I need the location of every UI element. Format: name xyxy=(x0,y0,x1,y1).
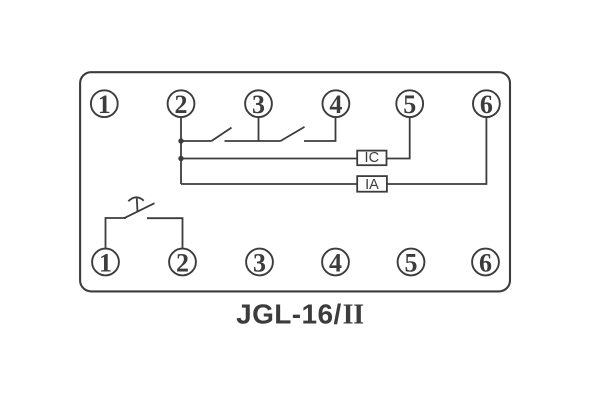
terminal 4 (top row) xyxy=(323,90,350,119)
wire: bottom terminal 1 up and right to test button xyxy=(106,218,127,249)
terminal 1 (top row) xyxy=(91,90,118,119)
relay element IC xyxy=(357,150,386,166)
terminal 6 (top row) xyxy=(473,90,500,119)
test button blade (contact between bottom terminals 1 and 2) xyxy=(124,203,155,218)
wire: test button to bottom terminal 2 xyxy=(147,218,183,248)
svg-text:3: 3 xyxy=(253,249,266,278)
relay element IA xyxy=(357,176,387,193)
terminal 4 (bottom row) xyxy=(322,249,349,278)
svg-text:2: 2 xyxy=(175,90,188,119)
relay case outline xyxy=(80,72,510,291)
svg-text:1: 1 xyxy=(98,90,111,119)
svg-text:5: 5 xyxy=(403,90,416,119)
contact blade (NO contact between terminals 3 and 4) xyxy=(281,127,305,141)
svg-text:JGL-16/II: JGL-16/II xyxy=(236,299,364,331)
svg-text:5: 5 xyxy=(405,249,418,278)
terminal 2 (bottom row) xyxy=(169,249,196,278)
terminal 5 (bottom row) xyxy=(398,249,425,278)
terminal 5 (top row) xyxy=(396,90,423,119)
wire: terminal 3 vertical drop xyxy=(258,117,260,141)
svg-text:IA: IA xyxy=(365,177,379,193)
wire: IC box to terminal 5 xyxy=(387,117,410,158)
contact blade (NO contact between terminals 2 and 3) xyxy=(212,128,232,141)
terminal 6 (bottom row) xyxy=(472,249,499,278)
svg-text:3: 3 xyxy=(252,90,265,119)
svg-text:6: 6 xyxy=(479,249,492,278)
terminal 2 (top row) xyxy=(168,90,195,119)
wire: contact row, first contact to terminal 3 drop and on to second contact xyxy=(225,140,281,142)
svg-text:2: 2 xyxy=(176,249,189,278)
wire: contact row, terminal 2 to first contact xyxy=(181,140,212,142)
junction dot at contact row xyxy=(178,138,183,143)
svg-text:4: 4 xyxy=(329,249,342,278)
wire: IC row from terminal 2 drop to IC box xyxy=(181,158,357,160)
wire: terminal 2 vertical drop to IA row xyxy=(180,117,182,184)
svg-text:1: 1 xyxy=(99,249,112,278)
wire: IA row from terminal 2 drop to IA box xyxy=(181,183,357,185)
label JGL-16/II (model designation) xyxy=(236,299,364,331)
svg-text:6: 6 xyxy=(480,90,493,119)
svg-text:4: 4 xyxy=(329,90,342,119)
junction dot at IC row xyxy=(178,156,183,161)
terminal 3 (top row) xyxy=(245,90,272,119)
svg-text:IC: IC xyxy=(365,150,380,166)
terminal 1 (bottom row) xyxy=(92,249,119,278)
test button actuator arc xyxy=(128,197,144,212)
wire: IA box to terminal 6 xyxy=(387,117,486,184)
wire: contact row, second contact to terminal 4 xyxy=(304,117,336,141)
terminal 3 (bottom row) xyxy=(246,249,273,278)
